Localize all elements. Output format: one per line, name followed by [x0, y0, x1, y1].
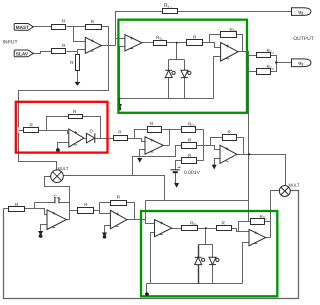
svg-text:0.001V: 0.001V — [184, 170, 201, 176]
svg-text:INPUT: INPUT — [3, 39, 18, 45]
svg-text:MAST: MAST — [16, 25, 29, 30]
svg-text:SLAV: SLAV — [16, 51, 29, 56]
svg-text:OUTPUT: OUTPUT — [293, 36, 314, 42]
svg-text:MULT: MULT — [58, 166, 70, 171]
svg-text:MULT: MULT — [289, 183, 301, 188]
